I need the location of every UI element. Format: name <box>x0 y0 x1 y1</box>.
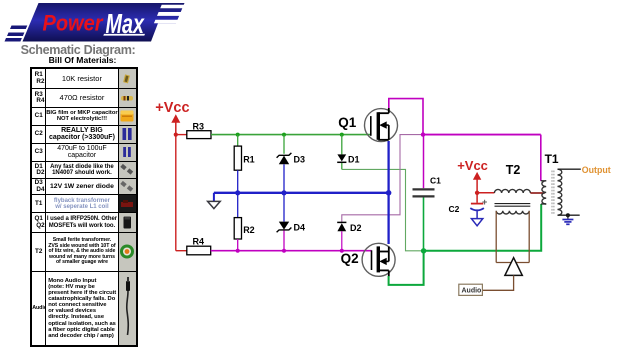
zener diode D3 <box>277 135 305 193</box>
amplifier (audio driver) <box>505 258 522 276</box>
capacitor C1 <box>413 135 442 251</box>
wire Q1 source to Q2 drain (blue) <box>387 141 389 244</box>
wire Vcc to T2 (red) <box>477 192 494 194</box>
svg-text:D4: D4 <box>294 223 306 233</box>
diode D2 <box>337 222 361 250</box>
ground (earth style) <box>562 215 573 224</box>
wire +Vcc rail (red) <box>176 135 187 251</box>
node Vcc junction dot <box>174 133 178 137</box>
node Audio input box <box>459 284 483 295</box>
wire T2 audio winding (brown) <box>496 211 529 263</box>
svg-text:Audio: Audio <box>462 288 482 295</box>
svg-text:R2: R2 <box>243 225 255 235</box>
PowerMax logo <box>0 0 196 46</box>
wire ground bus (blue) <box>214 190 392 196</box>
resistor R3 <box>187 121 211 138</box>
svg-text:Output: Output <box>582 165 611 175</box>
svg-text:+Vcc: +Vcc <box>155 100 189 116</box>
resistor R1 <box>234 135 255 193</box>
wire gate bus Q2 (magenta) <box>211 249 372 253</box>
svg-text:D1: D1 <box>348 154 360 164</box>
svg-text:Q2: Q2 <box>341 251 359 266</box>
ground (arrow style, left) <box>208 193 221 209</box>
wire Q1 drain to C1/T1 (magenta) <box>389 99 541 181</box>
svg-text:+Vcc: +Vcc <box>457 158 488 173</box>
wire D2 to drain node (thin purple) <box>342 135 423 223</box>
transformer T2 <box>494 163 530 214</box>
ground (arrow style) below C2 <box>471 219 482 226</box>
transistor Q2 <box>341 243 396 276</box>
svg-text:T1: T1 <box>545 152 559 166</box>
wire T1 secondary bottom <box>558 213 580 217</box>
wire T2 to T1 center tap (dark red) <box>530 192 544 194</box>
resistor R4 <box>187 237 211 255</box>
transformer T1 <box>541 152 562 215</box>
wire gate bus Q1 (green) <box>211 133 371 137</box>
wire tank bus to T1 (green) <box>424 204 542 251</box>
node tank junction <box>421 248 426 253</box>
svg-text:R4: R4 <box>193 237 205 247</box>
svg-text:D2: D2 <box>350 223 362 233</box>
wire Q2 source loop (green) <box>389 251 424 285</box>
svg-text:C2: C2 <box>449 204 460 214</box>
svg-text:Q1: Q1 <box>338 115 357 130</box>
wire T1 secondary top to Output <box>558 168 581 170</box>
wire audio input (brown) <box>482 275 513 290</box>
power +Vcc (left) <box>155 100 189 134</box>
svg-text:R1: R1 <box>243 155 255 165</box>
capacitor C2 <box>449 193 488 219</box>
Bill of materials table <box>30 67 138 347</box>
power +Vcc (right) <box>457 158 488 195</box>
zener diode D4 <box>277 193 305 251</box>
svg-text:+: + <box>482 197 487 207</box>
transistor Q1 <box>338 108 397 142</box>
resistor R2 <box>234 193 255 251</box>
diode D1 <box>337 135 359 170</box>
svg-text:T2: T2 <box>506 163 521 177</box>
svg-text:D3: D3 <box>294 155 306 165</box>
svg-text:R3: R3 <box>193 121 205 131</box>
svg-text:C1: C1 <box>430 176 441 186</box>
wire D1 to tank node (thin green) <box>342 169 424 250</box>
titles <box>0 43 156 57</box>
